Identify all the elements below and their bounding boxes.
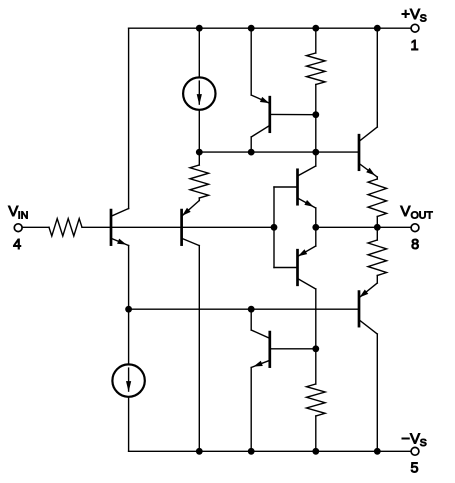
- svg-text:V: V: [400, 203, 410, 220]
- svg-text:1: 1: [411, 38, 419, 54]
- svg-text:IN: IN: [18, 210, 29, 222]
- svg-text:4: 4: [13, 237, 21, 253]
- svg-text:+V: +V: [401, 6, 420, 23]
- svg-text:8: 8: [411, 237, 419, 253]
- svg-text:OUT: OUT: [411, 210, 434, 222]
- svg-text:−V: −V: [401, 430, 420, 447]
- svg-text:S: S: [420, 13, 427, 25]
- svg-text:S: S: [420, 437, 427, 449]
- svg-text:5: 5: [411, 460, 419, 476]
